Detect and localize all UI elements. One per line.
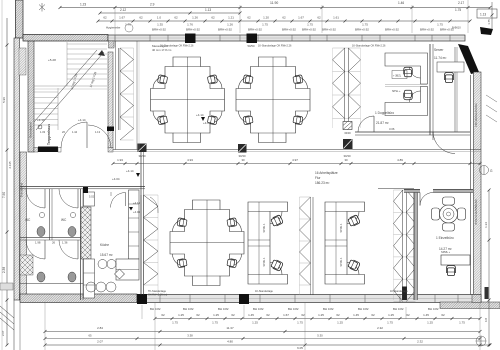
- svg-text:1.25: 1.25: [388, 313, 394, 317]
- svg-text:BRH+0.92: BRH+0.92: [440, 28, 454, 32]
- svg-text:1.25: 1.25: [252, 321, 258, 325]
- east margin slope ticks: [486, 95, 497, 122]
- door: WC2: [59, 189, 78, 208]
- wall: west exterior (Brandwand): [14, 0, 23, 300]
- fixture: toilets upper pair: [37, 227, 76, 237]
- stair treads lower flight: [34, 88, 58, 130]
- svg-text:2.9: 2.9: [150, 3, 155, 7]
- svg-text:21.87 m²: 21.87 m²: [376, 121, 389, 125]
- svg-text:+5.28: +5.28: [48, 58, 56, 62]
- column 30/30 mid B: [238, 144, 247, 158]
- svg-text:Brandwand: Brandwand: [29, 122, 33, 138]
- dimension line: corridor interior: [112, 158, 482, 165]
- partition zigzag kitchen: [141, 195, 158, 295]
- room label open office: [315, 171, 338, 185]
- svg-text:1.67: 1.67: [283, 313, 289, 317]
- svg-text:BH 0.82: BH 0.82: [218, 307, 229, 311]
- svg-text:62: 62: [406, 313, 410, 317]
- wall: north-east black wedge: [458, 44, 479, 74]
- svg-text:2.17: 2.17: [458, 1, 464, 5]
- svg-text:BH 0.82: BH 0.82: [323, 307, 334, 311]
- svg-text:+4.14: +4.14: [133, 201, 141, 205]
- svg-text:+4.14: +4.14: [196, 113, 204, 117]
- svg-text:11.37: 11.37: [226, 326, 234, 330]
- floor level labels: [112, 169, 140, 181]
- partition end pilaster south: [402, 287, 407, 301]
- svg-text:4.93: 4.93: [187, 158, 193, 162]
- desk cluster pinwheel 2: [236, 57, 310, 143]
- svg-text:1.25: 1.25: [318, 313, 324, 317]
- svg-text:BRH+0.92: BRH+0.92: [152, 28, 166, 32]
- svg-text:1.36: 1.36: [62, 241, 68, 245]
- svg-text:1.75: 1.75: [487, 19, 491, 25]
- svg-text:62: 62: [103, 16, 107, 20]
- svg-text:BRH+0.92: BRH+0.92: [355, 28, 369, 32]
- svg-text:BH 0.82: BH 0.82: [288, 307, 299, 311]
- svg-text:7.90: 7.90: [2, 192, 6, 198]
- desk cluster T-pair 2: [325, 202, 365, 284]
- kitchen counter east strip: [129, 190, 140, 259]
- dimension: WC row: [35, 241, 68, 245]
- desk: Server room: [437, 62, 464, 83]
- svg-text:62: 62: [211, 16, 215, 20]
- svg-text:1.35: 1.35: [157, 23, 163, 27]
- svg-text:BH 0.82: BH 0.82: [393, 307, 404, 311]
- desk cluster T-pair 1: [248, 202, 288, 284]
- svg-text:30/30: 30/30: [139, 154, 146, 158]
- svg-text:1.13: 1.13: [95, 130, 101, 134]
- svg-text:2.38: 2.38: [2, 267, 6, 273]
- svg-text:3.38: 3.38: [187, 334, 193, 338]
- svg-text:WC: WC: [25, 218, 31, 222]
- svg-text:2.135: 2.135: [8, 161, 12, 168]
- svg-text:16 Arbeitsplätze: 16 Arbeitsplätze: [315, 171, 338, 175]
- annotation measure note: [152, 44, 172, 52]
- room label Kueche: [100, 243, 113, 257]
- legend circle Hygienebereich: [106, 24, 133, 32]
- svg-text:1.25: 1.25: [427, 321, 433, 325]
- room labels WC: [25, 218, 67, 222]
- stools row: [86, 282, 116, 292]
- svg-text:1K-Standanlage OK RW+2.26: 1K-Standanlage OK RW+2.26: [160, 45, 194, 48]
- svg-text:1.67: 1.67: [119, 16, 125, 20]
- desk cluster pinwheel 1: [151, 57, 225, 143]
- desk cluster pinwheel 3: [170, 200, 244, 286]
- dimension line: bottom window row: [154, 313, 482, 325]
- wall: south band extension east: [440, 302, 500, 309]
- svg-text:4.89: 4.89: [397, 158, 403, 162]
- svg-text:4.8: 4.8: [484, 318, 488, 323]
- room label Einzelbuero: [436, 236, 454, 251]
- svg-text:1.98: 1.98: [35, 241, 41, 245]
- facade notes top: [160, 45, 386, 48]
- svg-text:BH 0.82: BH 0.82: [183, 307, 194, 311]
- svg-text:1.13: 1.13: [205, 8, 211, 12]
- svg-text:2.07: 2.07: [1, 330, 5, 336]
- svg-text:6.05: 6.05: [297, 346, 303, 350]
- shaft cross-hatched: [81, 207, 91, 259]
- svg-text:2.07: 2.07: [97, 340, 103, 344]
- door: stair double leaf B: [37, 118, 111, 148]
- kitchen counter west strip: [84, 192, 95, 298]
- svg-text:BRH+0.92: BRH+0.92: [218, 28, 232, 32]
- wall: stair south w/ door: [34, 147, 113, 153]
- svg-text:5.96: 5.96: [2, 97, 6, 103]
- chair diamond kitchen: [115, 269, 125, 279]
- svg-text:62: 62: [161, 313, 165, 317]
- wall: kitchen east: [141, 152, 144, 295]
- door: Kueche: [83, 187, 126, 208]
- svg-text:BRH+0.92: BRH+0.92: [385, 28, 399, 32]
- svg-text:1.75: 1.75: [262, 23, 268, 27]
- svg-text:Flur: Flur: [315, 176, 321, 180]
- partition zigzag office side: [394, 190, 416, 302]
- room label Doppelbuero: [375, 111, 395, 131]
- column 30/30 mid C: [343, 139, 353, 158]
- svg-text:2.12: 2.12: [120, 8, 126, 12]
- wall niche hatch left: [20, 255, 33, 275]
- room: Doppelbuero walls: [355, 44, 470, 135]
- svg-text:62: 62: [139, 16, 143, 20]
- svg-text:5.02: 5.02: [89, 195, 95, 199]
- svg-text:1 Einzelbüro: 1 Einzelbüro: [436, 236, 454, 240]
- svg-text:SPSL +: SPSL +: [392, 90, 401, 93]
- svg-text:62: 62: [231, 313, 235, 317]
- pilaster below north wall: [109, 41, 115, 48]
- svg-text:BRH+0.92: BRH+0.92: [248, 28, 262, 32]
- stair landing lines: [34, 86, 107, 89]
- kitchen counter bottom L: [116, 259, 139, 280]
- wall: einzelbuero top extension: [378, 188, 414, 190]
- svg-text:1.75: 1.75: [172, 321, 178, 325]
- marker x top-left: [39, 3, 45, 12]
- north symbol circle: [480, 166, 494, 175]
- svg-text:Brandwand: Brandwand: [20, 182, 24, 197]
- fixture: sinks: [39, 212, 75, 217]
- svg-text:1.23: 1.23: [80, 3, 86, 7]
- partition zigzag lower mid: [300, 197, 314, 295]
- bottom left corner details: [0, 283, 20, 350]
- dimension line: left vertical: [2, 0, 12, 350]
- corner block SE: [472, 295, 481, 303]
- svg-text:62: 62: [174, 16, 178, 20]
- sill height labels BRH top: [152, 28, 454, 32]
- column: small 30/30 above C: [343, 122, 352, 136]
- svg-text:40 mm 17.8 cm: 40 mm 17.8 cm: [152, 48, 172, 52]
- svg-text:1K-Standanlage OK RW+2.26: 1K-Standanlage OK RW+2.26: [352, 45, 386, 48]
- svg-text:1.25: 1.25: [337, 321, 343, 325]
- svg-text:+4.14: +4.14: [126, 169, 134, 173]
- svg-text:1.44: 1.44: [72, 130, 78, 134]
- door: Doppelbuero: [358, 116, 374, 132]
- svg-text:3.06: 3.06: [389, 127, 395, 131]
- door: WC1 lower: [26, 240, 45, 259]
- kitchen annotations: [129, 201, 141, 214]
- facade notes bottom: [148, 290, 409, 296]
- dimension line: right vertical top: [487, 2, 494, 30]
- meeting table round: [432, 197, 466, 231]
- svg-text:Treppenhaus: Treppenhaus: [47, 124, 51, 145]
- svg-text:30/30: 30/30: [344, 131, 351, 135]
- svg-text:BH 0.82: BH 0.82: [428, 307, 439, 311]
- door: Server room: [433, 132, 455, 154]
- svg-text:1.25: 1.25: [178, 313, 184, 317]
- svg-text:Hygienebe: Hygienebe: [106, 26, 121, 30]
- svg-text:1.75: 1.75: [307, 23, 313, 27]
- svg-text:OK RW+2.26 (m): OK RW+2.26 (m): [148, 293, 167, 296]
- svg-text:1.75: 1.75: [362, 23, 368, 27]
- svg-text:F90-VERGLASUNG: F90-VERGLASUNG: [474, 103, 478, 126]
- dimension line: bottom third: [44, 334, 482, 341]
- column 30/30 mid A: [138, 144, 147, 159]
- svg-text:BRH+0.92: BRH+0.92: [322, 28, 336, 32]
- svg-text:BH 0.82: BH 0.82: [253, 307, 264, 311]
- svg-text:+ 3BZL: + 3BZL: [393, 75, 402, 78]
- svg-text:4.97: 4.97: [292, 158, 298, 162]
- svg-text:30: 30: [241, 158, 245, 162]
- svg-text:BRH+0.92: BRH+0.92: [282, 28, 296, 32]
- frame bar east margin: [485, 287, 489, 299]
- svg-text:30: 30: [344, 158, 348, 162]
- svg-text:1.75: 1.75: [455, 8, 461, 12]
- wall: south window band: [20, 294, 481, 303]
- room label Server: [434, 48, 446, 60]
- wall: server east: [455, 47, 457, 132]
- svg-text:+4.04: +4.04: [133, 210, 141, 214]
- svg-text:5.30: 5.30: [317, 334, 323, 338]
- svg-text:1.75: 1.75: [297, 321, 303, 325]
- svg-text:+4.14: +4.14: [37, 118, 45, 122]
- door: stair double leaf A: [61, 122, 87, 148]
- svg-text:1.76: 1.76: [187, 23, 193, 27]
- bottom right vertical dimension: [484, 189, 491, 347]
- svg-text:Server: Server: [434, 48, 444, 52]
- desk: Einzelbuero: [441, 250, 470, 276]
- svg-text:1.46: 1.46: [398, 1, 404, 5]
- wall: stair east: [108, 52, 113, 148]
- wall: north window band: [108, 35, 465, 41]
- svg-text:+4.04: +4.04: [112, 177, 120, 181]
- door jamb black stair: [107, 127, 114, 132]
- dimension line: top second row: [99, 8, 462, 15]
- svg-text:1K-Standanlage: 1K-Standanlage: [390, 290, 409, 293]
- svg-text:62: 62: [196, 313, 200, 317]
- svg-text:62: 62: [336, 313, 340, 317]
- room: WC block walls: [20, 187, 145, 301]
- dimension line: bottom overall: [44, 340, 492, 350]
- svg-text:2.32: 2.32: [417, 340, 423, 344]
- dimension line: bottom mid: [44, 326, 482, 333]
- svg-text:1.13: 1.13: [480, 13, 486, 17]
- door: WC2 lower: [59, 240, 78, 259]
- svg-text:+4.04: +4.04: [203, 121, 211, 125]
- svg-text:62: 62: [266, 313, 270, 317]
- svg-text:26: 26: [52, 241, 56, 245]
- svg-text:62: 62: [247, 16, 251, 20]
- svg-text:BRH+0.92: BRH+0.92: [420, 28, 434, 32]
- svg-text:62: 62: [317, 16, 321, 20]
- room: Einzelbuero walls: [404, 190, 473, 301]
- svg-text:BRH+0.92: BRH+0.92: [302, 28, 316, 32]
- svg-text:1.75: 1.75: [387, 321, 393, 325]
- dimension line: top overall: [59, 1, 498, 35]
- svg-text:1.20: 1.20: [263, 16, 269, 20]
- door: WC1: [26, 189, 45, 208]
- svg-text:1.75: 1.75: [437, 23, 443, 27]
- svg-text:1.45: 1.45: [353, 313, 359, 317]
- svg-text:11.90: 11.90: [270, 1, 278, 5]
- svg-text:62: 62: [441, 313, 445, 317]
- stair treads upper flight: [67, 42, 107, 86]
- svg-text:1.26: 1.26: [192, 16, 198, 20]
- wall: east exterior hatched: [471, 72, 482, 303]
- svg-text:1.76: 1.76: [125, 23, 131, 27]
- partition zigzag stair side: [119, 48, 134, 140]
- partition: corridor glazing: [113, 150, 481, 152]
- wall: stairwell west double: [28, 38, 34, 152]
- svg-text:186.23 m²: 186.23 m²: [315, 181, 329, 185]
- stools pair: [98, 260, 116, 269]
- svg-text:1.67: 1.67: [298, 16, 304, 20]
- svg-text:50/50: 50/50: [248, 44, 255, 48]
- door: office side: [150, 197, 158, 213]
- svg-text:+4.14: +4.14: [78, 118, 86, 122]
- svg-text:1.75: 1.75: [212, 321, 218, 325]
- door: Einzelbuero: [420, 193, 433, 206]
- svg-text:BRH+0.92: BRH+0.92: [186, 28, 200, 32]
- column: south wall B: [239, 294, 249, 304]
- svg-text:1.25: 1.25: [213, 313, 219, 317]
- svg-text:1.45: 1.45: [248, 313, 254, 317]
- svg-text:4.80: 4.80: [227, 340, 233, 344]
- svg-text:2.84: 2.84: [97, 326, 103, 330]
- partition: office west boundary: [116, 41, 140, 150]
- svg-text:BH 0.82: BH 0.82: [358, 307, 369, 311]
- wall gap ties top-left: [19, 48, 26, 75]
- svg-text:1.45: 1.45: [423, 313, 429, 317]
- svg-text:62: 62: [301, 313, 305, 317]
- partition zigzag upper mid: [333, 48, 361, 128]
- svg-text:1K-Standanlage OK RW+2.26: 1K-Standanlage OK RW+2.26: [258, 45, 292, 48]
- svg-text:1.61: 1.61: [333, 16, 339, 20]
- svg-text:15.67 m²: 15.67 m²: [100, 253, 113, 257]
- svg-text:2.32: 2.32: [377, 326, 383, 330]
- svg-text:65: 65: [88, 334, 92, 338]
- column: north wall 50/50 A: [185, 34, 196, 44]
- fixture: toilets lower pair: [37, 272, 76, 282]
- wall: WC west band: [20, 152, 27, 300]
- wall: north exterior hatched segment: [23, 35, 108, 42]
- svg-text:11.74 m²: 11.74 m²: [434, 56, 446, 60]
- svg-text:1.93: 1.93: [117, 158, 123, 162]
- svg-text:1.26: 1.26: [227, 23, 233, 27]
- svg-text:Küche: Küche: [100, 243, 109, 247]
- svg-text:1 Doppelbüro: 1 Doppelbüro: [375, 111, 394, 115]
- svg-text:1.0: 1.0: [157, 16, 162, 20]
- svg-text:1K-Standanlage: 1K-Standanlage: [255, 290, 274, 293]
- desk: Doppelbuero upper: [385, 53, 428, 84]
- level label cluster1: [196, 113, 211, 125]
- svg-text:8.5M-SCHUTZWAND: 8.5M-SCHUTZWAND: [474, 199, 478, 224]
- svg-text:1.33: 1.33: [40, 130, 46, 134]
- column: south wall A: [137, 294, 147, 304]
- symbol circle bottom right: [476, 336, 486, 346]
- svg-text:WC: WC: [61, 218, 67, 222]
- svg-text:SPML +: SPML +: [441, 250, 451, 254]
- svg-text:1.21: 1.21: [228, 16, 234, 20]
- svg-text:BH 0.82: BH 0.82: [150, 307, 161, 311]
- sill labels BH bottom: [150, 307, 439, 311]
- svg-text:62: 62: [371, 313, 375, 317]
- desk: Doppelbuero lower: [385, 85, 428, 116]
- svg-text:62: 62: [282, 16, 286, 20]
- svg-text:1.75: 1.75: [459, 321, 465, 325]
- stair run line diagonal: [34, 50, 105, 145]
- svg-text:1.34: 1.34: [484, 222, 488, 228]
- column: north wall 50/50 B: [247, 34, 258, 49]
- dimension line: top window row: [97, 16, 472, 27]
